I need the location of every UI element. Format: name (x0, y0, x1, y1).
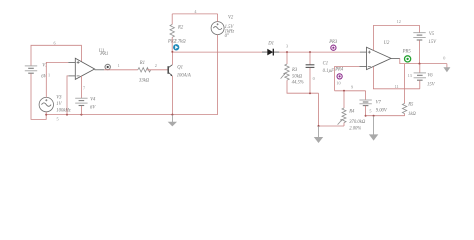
wire V1 negative return (31, 74, 46, 120)
svg-text:15V: 15V (428, 40, 437, 45)
junction at R3 branch (286, 51, 288, 53)
resistor R1 (138, 68, 151, 72)
transistor Q1 (168, 65, 172, 77)
wire R1 to Q1 base (147, 69, 168, 71)
junction V5 V6 midpoint (419, 63, 421, 65)
wire V5 bottom to output node (419, 40, 421, 63)
riser output to R5 (404, 64, 406, 104)
svg-text:100kHz: 100kHz (56, 109, 70, 114)
svg-text:PR1: PR1 (99, 52, 108, 57)
svg-text:V5: V5 (429, 32, 435, 37)
svg-text:7: 7 (83, 85, 85, 90)
svg-text:3: 3 (286, 43, 288, 48)
svg-text:0: 0 (313, 76, 315, 81)
junction V7 rail (365, 115, 367, 117)
wire V7 top riser (365, 91, 367, 100)
wire U1 output to R1 (104, 69, 138, 71)
svg-text:0°: 0° (225, 34, 229, 39)
battery V5 (413, 33, 425, 40)
wire Q1 emitter down (171, 76, 173, 115)
svg-text:15V: 15V (427, 82, 436, 87)
svg-text:D1: D1 (267, 41, 274, 46)
svg-text:370.0kΩ: 370.0kΩ (349, 120, 366, 125)
svg-text:9: 9 (351, 84, 353, 89)
wire Q1 collector up (171, 52, 173, 65)
probe PR4 (337, 74, 342, 79)
svg-text:0.1µF: 0.1µF (323, 69, 335, 74)
svg-text:2.7kΩ: 2.7kΩ (174, 40, 186, 45)
svg-text:PR5: PR5 (402, 49, 412, 54)
wire minus rail to R4 and V7 (335, 90, 366, 92)
junction at emitter bus (171, 114, 173, 116)
svg-text:V7: V7 (376, 100, 382, 105)
wire net 6 top-left (31, 45, 81, 65)
wire R3 top riser (286, 52, 288, 64)
wire V6 bottom to rail 11 (419, 81, 421, 89)
wire V3 top to opamp plus input (46, 62, 68, 97)
svg-text:V2: V2 (228, 16, 234, 21)
junction at collector node (171, 51, 173, 53)
potentiometer R3 (281, 64, 290, 80)
wire U1 minus input down to bus (67, 76, 68, 115)
svg-text:PR4: PR4 (334, 67, 344, 72)
wire U2 positive supply net 12 (373, 26, 419, 51)
resistor R2 (170, 24, 174, 37)
svg-text:13: 13 (408, 73, 412, 78)
wire down to lower ground rail (319, 93, 345, 126)
wire R5 bottom (404, 114, 406, 116)
svg-text:Q1: Q1 (177, 66, 183, 71)
svg-text:C1: C1 (323, 61, 328, 66)
svg-text:V6: V6 (427, 74, 433, 79)
svg-text:R5: R5 (407, 102, 414, 107)
wire bottom right rail (366, 115, 405, 117)
junction R4 top (343, 90, 345, 92)
potentiometer R4 (338, 108, 346, 125)
svg-text:R3: R3 (291, 68, 298, 73)
probe PR5 (405, 56, 411, 62)
svg-text:33kΩ: 33kΩ (139, 79, 150, 84)
AC source V3 (39, 97, 53, 111)
op-amp U2 (360, 47, 400, 69)
wire V4 bottom to bus (80, 106, 82, 115)
resistor R5 (402, 103, 406, 113)
svg-text:10: 10 (336, 81, 340, 86)
battery V1 (25, 66, 37, 73)
probe PR2 (173, 44, 179, 50)
svg-text:11: 11 (395, 84, 399, 89)
svg-text:100A/A: 100A/A (177, 74, 191, 79)
wire collector node to U2 plus input (172, 51, 360, 53)
wire R3 bottom to C1 bottom rail (287, 80, 319, 93)
svg-text:1: 1 (48, 73, 50, 78)
wire V2 bottom to bus (217, 35, 219, 115)
svg-text:2.00%: 2.00% (349, 126, 361, 131)
ground arrow at emitter bus (168, 115, 177, 127)
junction C1 bottom (309, 92, 311, 94)
svg-text:44.5%: 44.5% (292, 81, 304, 86)
svg-text:1kΩ: 1kΩ (408, 112, 416, 117)
wire V6 top (419, 64, 421, 73)
ground arrow right (369, 116, 378, 141)
ground arrow center (314, 126, 323, 143)
svg-text:V3: V3 (56, 96, 62, 101)
junction at opamp minus riser (66, 114, 68, 116)
svg-text:V4: V4 (90, 97, 96, 102)
junction lower ground (318, 125, 320, 127)
diode D1 (262, 49, 279, 56)
junction at V4 bottom (80, 114, 82, 116)
ground arrow output (443, 64, 450, 73)
wire R2 top (171, 14, 173, 25)
wire U1 negative supply to V4 (80, 76, 82, 98)
wire U2 minus input (335, 67, 360, 91)
wire V2 top pin (217, 14, 219, 22)
op-amp U1 (68, 58, 104, 79)
wire bottom bus net 5 (46, 114, 217, 116)
svg-text:1: 1 (118, 63, 120, 68)
wire V7 bottom to rail (365, 106, 367, 116)
probe PR3 (331, 45, 336, 50)
wire output net 0 (400, 58, 447, 63)
svg-text:R1: R1 (139, 61, 145, 66)
svg-text:12: 12 (397, 19, 401, 24)
wire R4 top pin (343, 91, 345, 108)
svg-text:5: 5 (57, 116, 59, 121)
svg-text:U2: U2 (384, 41, 390, 46)
battery V6 (414, 73, 426, 80)
wire net 4 top (172, 13, 217, 15)
svg-text:9.00V: 9.00V (376, 109, 388, 114)
svg-text:PR3: PR3 (328, 40, 338, 45)
capacitor C1 (306, 52, 315, 93)
wire R2 bottom to collector node (171, 37, 173, 52)
svg-text:50kΩ: 50kΩ (292, 74, 303, 79)
svg-text:2: 2 (155, 63, 157, 68)
AC source V2 (211, 22, 224, 35)
junction ground branch (373, 115, 375, 117)
wire R4 bottom (343, 123, 345, 126)
wire U2 negative supply net 11 (373, 67, 419, 89)
svg-text:5: 5 (369, 109, 371, 114)
svg-text:0: 0 (443, 56, 445, 61)
svg-text:6: 6 (54, 41, 56, 46)
junction at V3 bottom (45, 114, 47, 116)
probe PR1 (105, 64, 110, 69)
svg-text:R4: R4 (348, 109, 355, 114)
junction at C1 top (309, 51, 311, 53)
battery V7 (359, 100, 371, 106)
battery V4 (75, 98, 87, 105)
wire V3 bottom pin (45, 112, 47, 115)
svg-text:R2: R2 (177, 25, 184, 30)
